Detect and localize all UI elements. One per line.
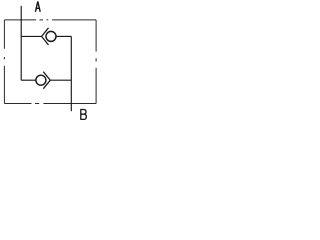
port label B (80, 110, 86, 120)
check valve CV2 seat (43, 72, 50, 89)
check valve CV1 ball (46, 31, 56, 41)
wire: check valve 2 outlet to right bus (50, 79, 71, 81)
wire: check valve 1 outlet to right bus (56, 35, 71, 37)
wire: left bus to check valve 2 inlet (21, 79, 36, 81)
check valve CV2 ball (36, 75, 46, 85)
manifold enclosure top edge (chain line) (4, 19, 96, 21)
port label A (35, 2, 40, 12)
manifold enclosure left edge (chain line) (3, 20, 5, 104)
check valve CV1 seat (42, 28, 49, 45)
manifold enclosure right edge (chain line) (95, 20, 97, 104)
manifold enclosure bottom edge (chain line) (4, 103, 96, 105)
wire: right bus down to port B (70, 36, 72, 111)
wire: branch to check valve 1 inlet (21, 35, 42, 37)
wire: port A line down left bus (20, 6, 22, 81)
